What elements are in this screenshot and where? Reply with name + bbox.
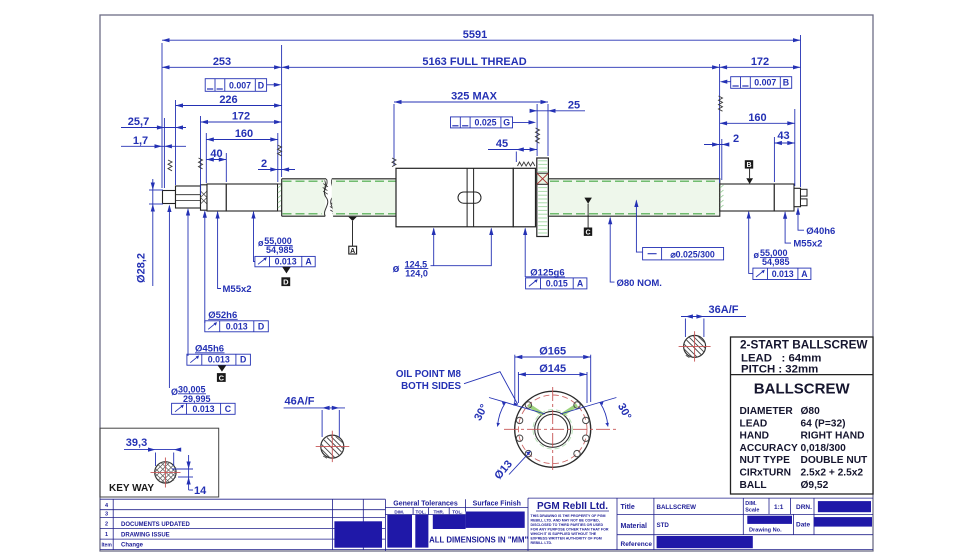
flange centerlines [504,387,618,471]
hex 36A/F circle [679,331,711,361]
svg-text:1: 1 [105,532,108,538]
bolt holes Ø13 [516,402,589,457]
svg-text:0.007: 0.007 [229,80,251,90]
dimension 172 left [201,111,282,125]
leader M55x2 right [783,211,791,243]
dimension Ø145 [518,363,587,403]
svg-text:BALLSCREW: BALLSCREW [657,504,697,511]
dimension 14 [172,455,207,497]
spec title BALLSCREW [754,381,851,398]
witness break marks [168,96,723,171]
info labels [621,501,813,548]
svg-text:C: C [219,373,225,382]
feature control frame 0.007 B [720,77,792,89]
svg-text:D: D [283,278,289,287]
svg-text:0.013: 0.013 [208,355,230,365]
svg-text:54,985: 54,985 [266,245,294,255]
svg-text:Material: Material [621,523,648,530]
spec table box [731,337,874,494]
shaft journal Ø55,000/54,985 left [226,184,281,211]
svg-text:0.013: 0.013 [275,257,297,267]
svg-text:DRN.: DRN. [796,504,812,511]
svg-text:0.013: 0.013 [772,269,794,279]
KEY WAY text [109,483,154,494]
svg-text:0.025: 0.025 [474,117,496,127]
svg-text:Ø28,2: Ø28,2 [136,253,148,283]
svg-text:2-START BALLSCREW: 2-START BALLSCREW [740,338,868,352]
svg-text:39,3: 39,3 [126,437,147,449]
svg-text:172: 172 [751,56,769,68]
svg-text:B: B [783,78,789,88]
svg-text:THR.: THR. [433,509,444,514]
label Ø30,005/29,995 0.013 C [171,385,235,415]
dimension Ø165 [515,345,591,402]
dimension 40 [206,148,226,162]
svg-text:1:1: 1:1 [774,504,784,511]
svg-text:Surface Finish: Surface Finish [473,501,521,508]
label M55x2 left [223,284,252,295]
leader Ø13 [492,451,530,482]
info grid lines [528,498,873,549]
svg-text:25,7: 25,7 [128,116,149,128]
svg-text:C: C [585,229,590,236]
oil point note [396,369,518,406]
datum flag C [217,365,226,382]
datum flag D under FCF [281,267,290,287]
label Ø52h6 0.013 D [205,310,268,332]
svg-text:BOTH SIDES: BOTH SIDES [401,381,461,392]
leader Ø45h6 [186,208,190,356]
svg-text:LEAD: LEAD [740,418,768,429]
svg-text:EXPRESS WRITTEN AUTHORITY OF P: EXPRESS WRITTEN AUTHORITY OF PGM [531,537,602,541]
svg-text:Ø145: Ø145 [539,363,566,375]
leader Ø55 right [747,211,753,273]
svg-text:Ø80 NOM.: Ø80 NOM. [617,278,662,289]
svg-text:G: G [503,117,510,127]
nut split lines [467,168,474,227]
svg-text:CIRxTURN: CIRxTURN [740,468,792,479]
svg-text:BALL: BALL [740,480,767,491]
svg-text:D: D [258,80,264,90]
info redactions [657,501,872,548]
svg-text:REBILL LTD.: REBILL LTD. [531,541,553,545]
feature control frame 0.025 G [451,117,537,128]
spec rows [740,406,869,491]
svg-text:0.015: 0.015 [546,278,568,288]
label Ø125g6 0.015 A [525,267,587,289]
svg-text:FOR ANY PURPOSE OTHER THAN THA: FOR ANY PURPOSE OTHER THAN THAT FOR [531,528,609,532]
svg-text:DISCLOSED TO THIRD PARTIES OR: DISCLOSED TO THIRD PARTIES OR USED [531,523,604,527]
straightness frame 0.025/300 [634,200,723,260]
datum flag G on axis [584,198,592,237]
30 degree right [560,398,633,427]
svg-text:A: A [577,278,584,288]
leader Ø125g6 [523,228,527,278]
datum B flag [745,160,753,184]
svg-text:REBILL LTD. AND MAY NOT BE COP: REBILL LTD. AND MAY NOT BE COPIED, [531,519,600,523]
dimension 45 [488,138,537,152]
svg-text:Reference: Reference [621,541,653,548]
shaft thread section M55x2 left [207,184,226,211]
flange grease port [537,173,549,184]
shaft journal Ø55,000/54,985 right [720,184,775,211]
dimension 46A/F [284,396,345,438]
dimension 25 [530,99,585,113]
svg-text:160: 160 [748,112,766,124]
svg-text:226: 226 [219,94,237,106]
ballnut spigot Ø125g6 [513,168,535,227]
label Ø124,5/124,0 [393,259,429,278]
svg-text:THIS DRAWING IS THE PROPERTY O: THIS DRAWING IS THE PROPERTY OF PGM [531,514,606,518]
leader Ø40h6 [796,207,804,230]
ballscrew thread mid segment [332,179,396,216]
svg-text:0,018/300: 0,018/300 [801,443,847,454]
shaft end Ø40h6 [794,188,801,206]
svg-text:DRAWING ISSUE: DRAWING ISSUE [121,532,170,538]
datum A flag [348,217,357,255]
svg-text:DOUBLE NUT: DOUBLE NUT [801,455,869,466]
leader Ø80 NOM [608,217,614,282]
dimension 172 top right [720,56,801,69]
svg-text:A: A [305,257,312,267]
svg-text:Title: Title [621,504,635,511]
company cell [536,501,609,512]
svg-text:Drawing No.: Drawing No. [749,528,782,534]
leader Ø55 left [251,211,255,262]
svg-text:PITCH : 32mm: PITCH : 32mm [741,364,818,376]
svg-text:PGM RebII Ltd.: PGM RebII Ltd. [537,501,608,512]
oil passages green [528,405,577,414]
dimension 5163 FULL THREAD [282,56,720,69]
bore circles [535,411,571,447]
svg-text:2: 2 [261,158,267,170]
svg-text:TOL.: TOL. [416,509,426,514]
hex 46A/F circle [316,431,350,462]
svg-text:0.007: 0.007 [754,78,776,88]
svg-text:40: 40 [210,148,222,160]
svg-text:124,0: 124,0 [405,269,428,279]
tolerance section [385,498,528,551]
svg-text:0.013: 0.013 [226,321,248,331]
svg-text:Ø165: Ø165 [539,345,566,357]
svg-text:2: 2 [733,133,739,145]
svg-text:Ø80: Ø80 [801,406,821,417]
tolerance redactions [387,512,524,548]
svg-text:ALL DIMENSIONS IN "MM": ALL DIMENSIONS IN "MM" [429,536,528,545]
svg-text:NUT TYPE: NUT TYPE [740,455,791,466]
dimension 36A/F [681,304,746,337]
svg-text:M55x2: M55x2 [223,284,252,295]
svg-text:TOL.: TOL. [452,509,462,514]
dimension 253 [162,56,282,69]
revision table [100,499,873,551]
svg-text:3: 3 [105,512,108,518]
svg-text:WHICH IT IS SUPPLIED WITHOUT T: WHICH IT IS SUPPLIED WITHOUT THE [531,532,597,536]
svg-text:54,985: 54,985 [762,257,790,267]
svg-text:A: A [350,248,355,255]
dimension 25,7 [121,116,186,130]
svg-text:25: 25 [568,99,580,111]
svg-text:⌀0.025/300: ⌀0.025/300 [670,249,715,259]
keyway detail box [100,428,219,497]
flange outer circle [515,391,591,467]
all dimensions note [429,536,528,545]
dimension 160 right [720,112,795,126]
dimension 325 MAX [394,91,548,105]
svg-text:Ø: Ø [171,387,178,397]
leader Ø52h6 [203,210,207,323]
shaft section Ø45h6 [176,186,201,208]
svg-text:2.5x2 + 2.5x2: 2.5x2 + 2.5x2 [801,468,864,479]
svg-text:253: 253 [213,56,231,68]
leader Ø30 journal [167,205,171,389]
dimension 2 left [258,158,295,172]
bolt circle Ø145 [518,395,587,464]
oil hole slot [458,192,481,203]
svg-text:OIL POINT M8: OIL POINT M8 [396,369,462,380]
svg-text:D: D [258,321,264,331]
svg-text:Item: Item [102,543,113,549]
svg-text:A: A [801,269,808,279]
shaft end stub Ø30 [163,191,176,204]
svg-text:172: 172 [232,111,250,123]
shaft end tip [801,189,808,205]
label Ø45h6 0.013 D [187,344,251,366]
dimension 226 [176,94,282,108]
svg-text:64 (P=32): 64 (P=32) [801,418,846,429]
leader M55x2 left [216,211,222,289]
feature control frame 0.007 D [205,79,281,92]
svg-text:BALLSCREW: BALLSCREW [754,381,851,398]
svg-text:General Tolerances: General Tolerances [393,501,458,508]
dimension 160 left [206,128,277,142]
svg-text:KEY WAY: KEY WAY [109,483,154,494]
revision rows text [102,503,191,549]
leader Ø124,5 [431,228,494,266]
tolerance headers [393,501,521,515]
svg-text:0.013: 0.013 [192,404,214,414]
svg-text:5591: 5591 [463,29,487,41]
ballscrew thread right segment [548,179,719,216]
svg-text:HAND: HAND [740,431,769,442]
border frame [100,15,873,551]
svg-text:5163 FULL THREAD: 5163 FULL THREAD [422,56,526,68]
30 degree left [472,398,545,427]
svg-text:29,995: 29,995 [183,394,211,404]
dimension Ø28,2 [136,179,164,286]
thread circle green [533,410,572,449]
svg-text:Ø9,52: Ø9,52 [801,480,829,491]
svg-text:Change: Change [121,543,144,549]
label M55x2 right [793,239,822,250]
svg-text:325 MAX: 325 MAX [451,91,498,103]
nut flange [537,158,549,237]
svg-text:ø: ø [393,263,400,275]
svg-text:1,7: 1,7 [133,135,148,147]
extension lines top [162,35,801,195]
svg-text:STD: STD [657,522,670,529]
svg-text:DIM.: DIM. [745,501,757,507]
svg-text:B: B [746,162,751,169]
ballnut body Ø124,5 [396,168,513,227]
dimension 5591 [162,29,801,42]
svg-text:43: 43 [777,130,789,142]
svg-text:DIAMETER: DIAMETER [740,406,794,417]
spec header 2-START BALLSCREW [740,338,868,376]
svg-text:45: 45 [496,138,508,150]
label Ø55,000/54,985 0.013 A left [255,236,315,267]
svg-text:DOCUMENTS UPDATED: DOCUMENTS UPDATED [121,522,191,528]
svg-text:Ø40h6: Ø40h6 [806,226,835,237]
ballscrew thread left segment [282,179,326,216]
svg-text:ø: ø [258,238,264,248]
svg-text:ACCURACY: ACCURACY [740,443,798,454]
dimension 2 right [704,133,739,147]
label Ø55,000/54,985 0.013 A right [753,248,811,279]
svg-text:46A/F: 46A/F [285,396,315,408]
label Ø40h6 [806,226,835,237]
keyway circle [151,458,181,488]
svg-text:C: C [225,404,232,414]
dimension 39,3 [124,437,181,466]
shaft relief ring Ø52h6 [201,185,208,210]
revision redaction [334,521,382,547]
svg-text:RIGHT HAND: RIGHT HAND [801,431,865,442]
label Ø80 NOM. [617,278,662,289]
svg-text:14: 14 [194,485,207,497]
svg-text:D: D [240,355,246,365]
svg-text:Date: Date [796,522,810,529]
dimension 1,7 [121,135,186,149]
dimension 43 [774,130,794,145]
svg-text:36A/F: 36A/F [709,304,739,316]
svg-text:ø: ø [754,250,760,260]
break symbol [323,179,336,216]
svg-text:DIM.: DIM. [394,509,404,514]
svg-text:M55x2: M55x2 [793,239,822,250]
shaft thread M55x2 right [774,184,794,211]
svg-text:2: 2 [105,522,108,528]
svg-text:Scale: Scale [745,508,759,514]
svg-text:160: 160 [235,128,253,140]
company small print [531,514,609,545]
